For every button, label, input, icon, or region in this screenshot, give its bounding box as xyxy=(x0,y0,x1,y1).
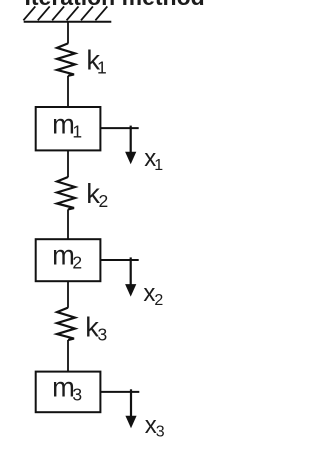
mass m1 xyxy=(36,107,101,150)
wire: spring k3 to mass m3 xyxy=(67,340,69,372)
fixed support: ceiling line xyxy=(24,21,112,23)
wire: mass m1 to spring k2 xyxy=(67,150,69,177)
wire: spring k2 to mass m2 xyxy=(67,209,69,239)
spring k3 xyxy=(57,308,75,340)
spring k2 xyxy=(57,177,75,209)
wire: mass m2 to spring k3 xyxy=(67,281,69,308)
displacement arrow x1: vertical shaft xyxy=(130,126,132,153)
displacement arrow x2: arrowhead xyxy=(125,284,136,297)
fixed support: hatching xyxy=(23,6,107,20)
spring k1 xyxy=(57,43,75,75)
svg-text:Iteration method: Iteration method xyxy=(25,0,205,10)
mass m3 xyxy=(36,372,101,413)
displacement arrow x1: horizontal lead xyxy=(100,127,138,129)
displacement arrow x3: vertical shaft xyxy=(130,389,132,416)
wire: spring k1 to mass m1 xyxy=(67,76,69,107)
displacement arrow x3: horizontal lead xyxy=(100,391,139,393)
mass m2 xyxy=(36,239,101,281)
displacement arrow x1: arrowhead xyxy=(125,152,136,165)
displacement arrow x2: vertical shaft xyxy=(130,257,132,285)
displacement arrow x2: horizontal lead xyxy=(100,259,138,261)
displacement arrow x3: arrowhead xyxy=(125,416,136,429)
wire: ceiling to spring k1 xyxy=(67,22,69,44)
